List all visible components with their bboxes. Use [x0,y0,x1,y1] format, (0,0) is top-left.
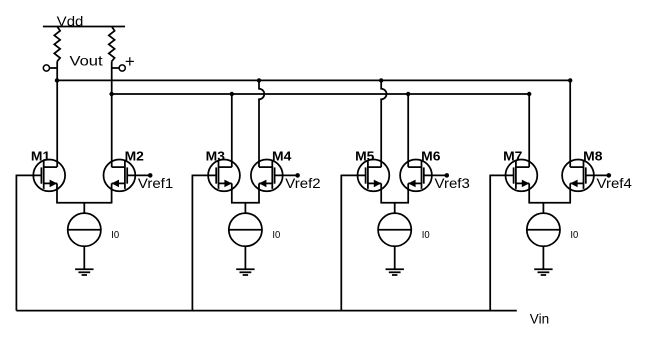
wire: M1 gate to Vin bus [16,174,41,176]
svg-text:Vref1: Vref1 [138,175,174,191]
wire: current source to ground pair 1 [83,246,85,269]
transistor M2 (NMOS) [104,160,136,192]
junction: bus B end / M7 drop [527,92,531,96]
wire: M2 gate stub to Vref1 [127,174,150,176]
junction: bus B / M6 drop [406,92,410,96]
svg-text:M7: M7 [503,148,522,163]
current source I0 (pair 1) [68,213,101,246]
junction: bus A / M4 drop [257,78,261,82]
transistor M5 (NMOS) [358,160,390,192]
svg-text:M8: M8 [583,148,602,163]
wire: tail stem pair 2 [244,203,246,213]
svg-text:Vref2: Vref2 [285,175,321,191]
current source I0 (pair 4) [527,213,560,246]
svg-text:I0: I0 [422,230,430,241]
wire: bus A down to M5 drain (hops over bus B) [381,80,386,167]
wire: M7 source down [528,183,530,202]
junction: bus A at M1 drain [55,78,59,82]
svg-text:Vout: Vout [70,53,103,69]
wire: source join pair 1 [56,202,112,204]
wire: current source to ground pair 3 [394,246,396,269]
wire: bus B down to M3 drain [231,94,233,167]
wire: M1 source down [56,183,58,202]
Vdd power rail [43,26,125,28]
plus sign (+ polarity of Vout) [126,60,134,62]
junction: bus B at M2 drain [109,92,113,96]
ground (pair 2) [236,269,254,275]
wire: bus A down to M4 drain (hops over bus B) [259,80,264,167]
wire: tail stem pair 3 [394,203,396,213]
current source I0 (pair 3) [378,213,411,246]
node Vref4 terminal dot [607,173,612,178]
wire: source join pair 2 [231,202,260,204]
svg-text:M6: M6 [421,148,440,163]
wire: M3 gate to Vin bus [192,174,216,176]
terminal Vout- (open circle) [43,65,49,71]
current source I0 (pair 2) [229,213,262,246]
node B: second horizontal bus (M2/M3/M6/M7 drains) [112,93,530,95]
wire: M4 source down [258,183,260,202]
node Vin: bottom bus wire [16,310,516,312]
transistor M4 (NMOS) [251,160,283,192]
transistor M1 (NMOS) [33,160,65,192]
svg-text:Vref3: Vref3 [435,175,471,191]
wire: tail stem pair 4 [542,203,544,213]
svg-text:I0: I0 [111,230,119,241]
resistor R1 (left load) [54,27,60,62]
wire: bus B down to M6 drain [407,94,409,167]
node A: top horizontal bus (M1/M4/M5/M8 drains) [57,79,570,81]
wire: M5 source down [380,183,382,202]
wire: Vout+ stub [112,67,119,69]
wire: M4 gate stub to Vref2 [275,174,298,176]
transistor M3 (NMOS) [208,160,240,192]
svg-text:M5: M5 [355,148,374,163]
wire: source join pair 3 [380,202,409,204]
transistor M8 (NMOS) [562,160,594,192]
transistor M7 (NMOS) [506,160,538,192]
wire: tail stem pair 1 [83,203,85,213]
wire: current source to ground pair 4 [542,246,544,269]
wire: current source to ground pair 2 [244,246,246,269]
svg-text:M2: M2 [125,148,144,163]
svg-text:I0: I0 [570,230,578,241]
wire: bus A end down to M8 drain [569,80,571,167]
ground (pair 1) [75,269,93,275]
transistor M6 (NMOS) [400,160,432,192]
wire: source join pair 4 [528,202,571,204]
ground (pair 3) [386,269,404,275]
junction: bus A / M5 drop [379,78,383,82]
junction: bus A end / M8 drop [568,78,572,82]
svg-text:M3: M3 [206,148,225,163]
svg-text:Vref4: Vref4 [597,175,633,191]
wire: M6 source down [407,183,409,202]
node Vref1 terminal dot [148,173,153,178]
node Vref2 terminal dot [295,173,300,178]
svg-text:M4: M4 [272,148,292,163]
svg-text:I0: I0 [272,230,280,241]
wire: M3 source down [231,183,233,202]
wire: M6 gate stub to Vref3 [424,174,447,176]
wire: M2 source down [111,183,113,202]
wire: R2 bottom lead / M2 drain vertical [111,61,113,167]
svg-text:Vdd: Vdd [57,13,84,29]
wire: M7 gate to Vin bus [490,174,513,176]
resistor R2 (right load) [109,27,115,62]
terminal Vout+ (open circle) [119,65,125,71]
ground (pair 4) [534,269,552,275]
wire: Vout- stub [50,67,57,69]
wire: M8 source down [569,183,571,202]
wire: R1 bottom lead / M1 drain vertical [56,61,58,167]
svg-text:Vin: Vin [530,310,549,326]
wire: M5 gate to Vin bus [341,174,365,176]
junction: bus B / M3 drop [230,92,234,96]
node Vref3 terminal dot [445,173,450,178]
wire: bus B end down to M7 drain [528,94,530,167]
svg-text:M1: M1 [31,148,50,163]
wire: M8 gate stub to Vref4 [586,174,609,176]
